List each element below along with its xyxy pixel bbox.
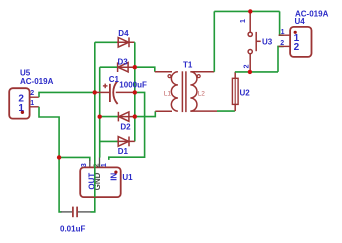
- connector U5 pin 2 stub: [30, 96, 39, 98]
- svg-text:L1: L1: [164, 90, 172, 97]
- wire D3 anode down to U1 IN: [99, 67, 101, 157]
- capacitor C1 right lead: [116, 91, 135, 93]
- U1 pin-1 marker dot: [114, 171, 117, 174]
- svg-text:1: 1: [30, 100, 34, 107]
- wire T1 secondary bottom to fuse U2: [217, 110, 235, 112]
- fuse U2 element line: [234, 78, 236, 104]
- connector U4 pin 1 stub: [279, 34, 291, 36]
- wire D3 row left: [100, 66, 117, 68]
- svg-text:3: 3: [81, 163, 88, 167]
- connector U4 body: [290, 27, 311, 57]
- U1 pin 3 gray stub: [89, 160, 91, 167]
- diode D4: [116, 37, 134, 47]
- svg-text:2: 2: [294, 42, 300, 53]
- capacitor C2 left plate: [72, 207, 74, 218]
- transformer T1 secondary top lead: [190, 71, 214, 73]
- diode D1: [117, 137, 135, 147]
- capacitor C1 left lead: [95, 91, 109, 93]
- wire D4 row left: [95, 41, 117, 43]
- junction node U3 pin 2: [248, 70, 252, 74]
- C1 plus sign: [103, 84, 108, 89]
- wire up to U4 pin 2: [278, 46, 284, 72]
- wire D2 row right to T1 primary bottom: [135, 111, 156, 116]
- wire C1 row right down to U1 IN stub: [109, 92, 145, 159]
- svg-text:D2: D2: [120, 123, 131, 132]
- switch U3 actuator: [256, 32, 261, 51]
- junction node B: [57, 155, 61, 159]
- capacitor C2 right plate: [76, 207, 78, 218]
- wire D4 row right: [133, 41, 136, 43]
- connector U4 pin 2 stub: [279, 45, 291, 47]
- junction node C1 right: [133, 90, 137, 94]
- U1 pin 1 gray stub: [99, 158, 101, 168]
- wire D2 row left: [100, 116, 118, 118]
- wire D3 row right to T1 primary top: [135, 67, 155, 72]
- wire top row to U4: [214, 10, 279, 12]
- capacitor C1 straight plate: [109, 84, 111, 102]
- wire T1 secondary top up to switch row: [213, 11, 215, 71]
- junction node A C1 left: [93, 90, 97, 94]
- wire GND rail through U1: [94, 42, 96, 197]
- wire C2 to U1 GND rail: [91, 197, 95, 212]
- T1 secondary phase dot: [197, 75, 200, 78]
- svg-text:U2: U2: [240, 89, 251, 98]
- svg-text:2: 2: [243, 64, 250, 68]
- capacitor C2 0.01uF left lead: [61, 211, 72, 213]
- capacitor C2 right lead: [78, 211, 91, 213]
- junction node D2 left: [98, 115, 102, 119]
- switch U3 top contact: [248, 32, 252, 36]
- T1 primary phase dot: [168, 75, 171, 78]
- wire switch bottom row: [235, 71, 278, 73]
- transformer T1 primary bottom lead: [155, 110, 172, 112]
- switch U3 top lead: [249, 13, 251, 33]
- wire node B down to capacitor C2: [59, 157, 61, 212]
- fuse U2 top lead: [234, 72, 236, 78]
- wire U5 pin 2 to bridge node A: [39, 92, 95, 97]
- transformer T1 secondary winding L2: [190, 72, 197, 111]
- svg-text:1: 1: [240, 19, 247, 23]
- svg-text:D3: D3: [118, 58, 129, 67]
- wire right bridge rail: [134, 42, 136, 141]
- wire D1 row left: [100, 140, 118, 142]
- fuse U2 body: [232, 78, 238, 104]
- svg-text:0.01uF: 0.01uF: [60, 225, 85, 234]
- capacitor C1 curved plate: [113, 81, 117, 104]
- transformer T1 secondary bottom lead: [190, 110, 217, 112]
- svg-text:U4: U4: [295, 17, 306, 26]
- transformer T1 primary top lead: [155, 71, 172, 73]
- svg-text:AC-019A: AC-019A: [20, 77, 54, 86]
- diode D2: [117, 112, 135, 122]
- svg-text:D4: D4: [118, 29, 129, 38]
- junction node U3 pin 1: [248, 9, 252, 13]
- svg-text:C1: C1: [109, 75, 120, 84]
- svg-text:2: 2: [30, 90, 34, 97]
- svg-text:IN: IN: [110, 173, 119, 181]
- connector U5 pin 1 stub: [30, 106, 39, 108]
- fuse U2 bottom lead: [234, 104, 236, 111]
- diode D3: [116, 62, 134, 72]
- svg-text:T1: T1: [183, 60, 193, 69]
- svg-text:1: 1: [281, 29, 285, 36]
- transformer T1 core: [182, 71, 186, 112]
- U4 pin-1 marker dot: [294, 31, 297, 34]
- junction node D2 right: [133, 114, 137, 118]
- U5 pin-1 marker dot: [21, 111, 24, 114]
- voltage regulator U1 body: [80, 167, 121, 197]
- svg-text:1: 1: [101, 163, 108, 167]
- transformer T1 primary winding L1: [171, 72, 178, 111]
- switch U3 bottom contact: [248, 50, 252, 54]
- svg-text:L2: L2: [198, 90, 206, 97]
- connector U5 body: [9, 88, 29, 118]
- switch U3 bottom lead: [249, 54, 251, 72]
- svg-text:1000uF: 1000uF: [119, 81, 147, 90]
- svg-text:U3: U3: [262, 37, 273, 46]
- wire node B to U1 OUT pin: [59, 157, 90, 160]
- junction node D3 right: [133, 65, 137, 69]
- svg-text:2: 2: [280, 40, 284, 47]
- wire down to U4 pin 1: [280, 11, 284, 35]
- wire U5 pin 1 down to node B: [39, 107, 59, 158]
- svg-text:U1: U1: [122, 173, 133, 182]
- svg-text:D1: D1: [118, 147, 129, 156]
